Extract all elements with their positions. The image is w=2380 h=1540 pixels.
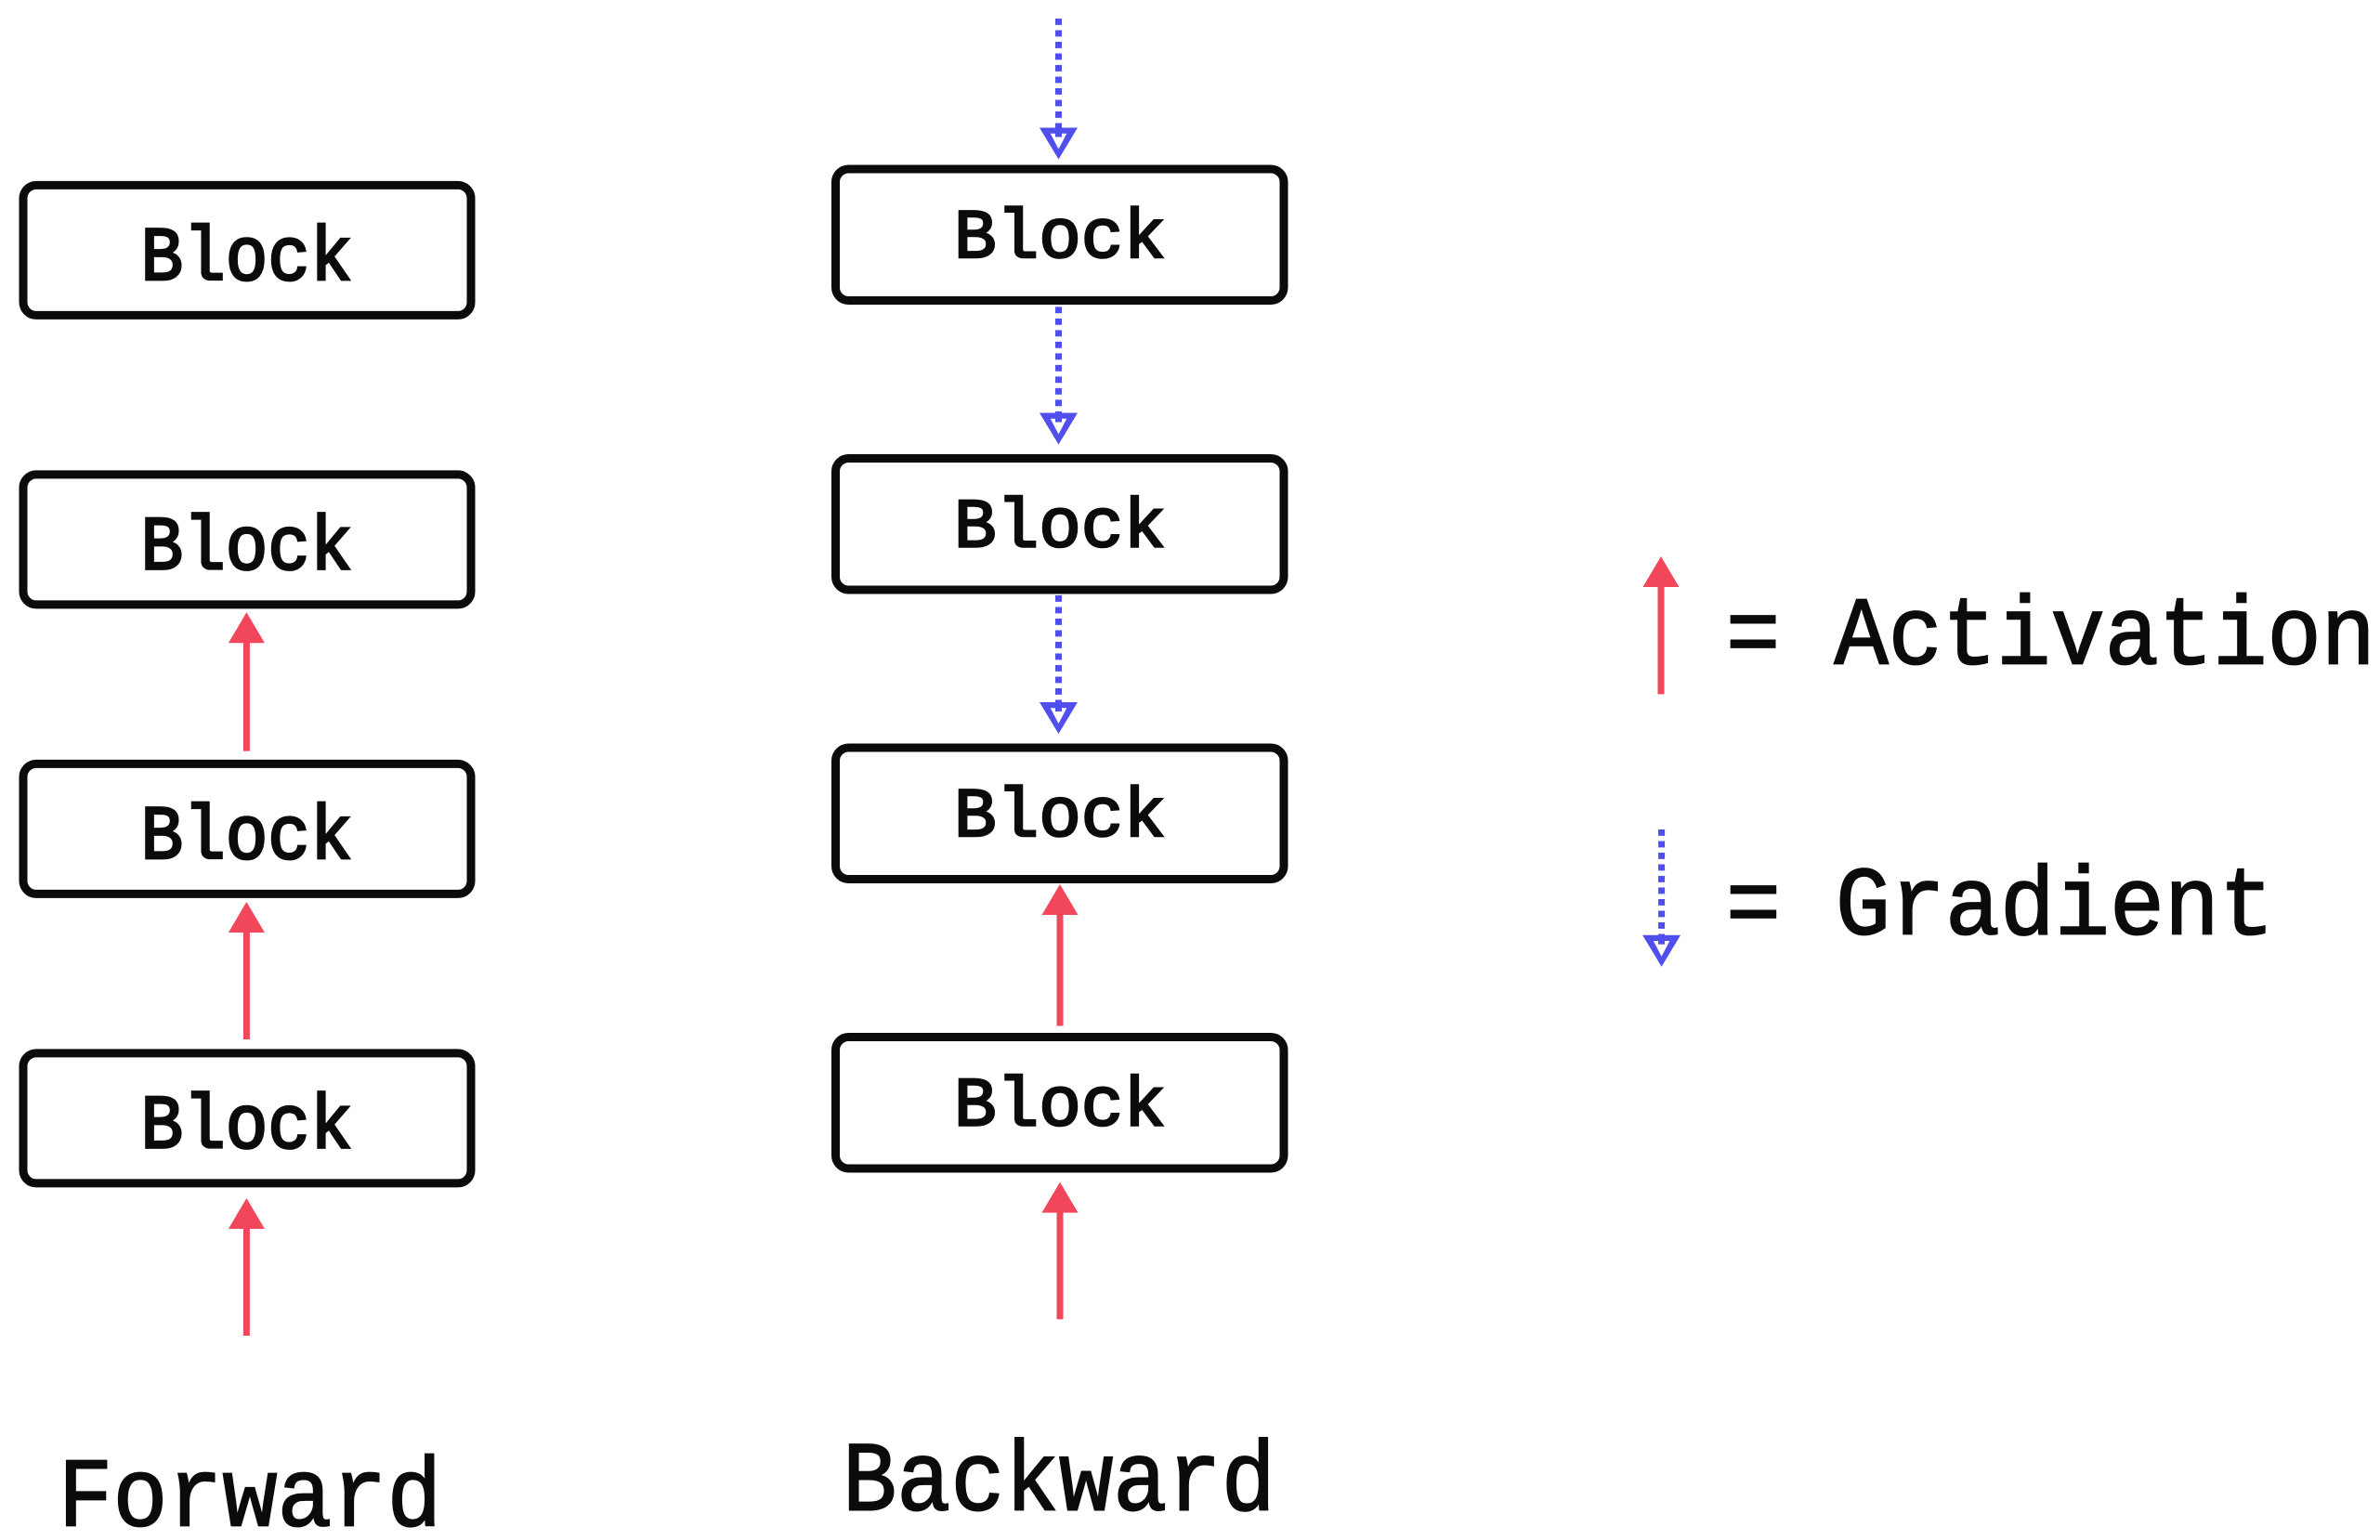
- arrow activation mid A5: [1042, 1182, 1079, 1320]
- block box forward 1: [23, 185, 471, 315]
- block box backward 2: [836, 459, 1285, 591]
- svg-text:= Activation: = Activation: [1726, 583, 2375, 694]
- block box backward 4: [836, 1038, 1285, 1169]
- legend gradient arrow: [1642, 829, 1680, 967]
- arrow activation mid A4: [1042, 884, 1079, 1026]
- svg-text:= Gradient: = Gradient: [1726, 854, 2274, 964]
- arrow gradient top B1: [1040, 19, 1078, 160]
- svg-text:Block: Block: [141, 794, 353, 881]
- block box forward 4: [23, 1053, 471, 1183]
- block box forward 2: [23, 475, 471, 605]
- svg-text:Block: Block: [141, 1084, 353, 1171]
- arrow gradient mid B3: [1040, 595, 1078, 734]
- svg-text:Block: Block: [954, 199, 1166, 279]
- svg-text:Block: Block: [141, 505, 353, 593]
- arrow activation left A2: [229, 902, 265, 1039]
- arrow gradient mid B2: [1040, 307, 1078, 444]
- arrow activation left A3: [229, 1198, 265, 1336]
- svg-text:Block: Block: [141, 215, 353, 303]
- svg-text:Block: Block: [954, 777, 1166, 857]
- legend activation arrow: [1643, 556, 1680, 694]
- svg-text:Block: Block: [954, 1067, 1166, 1147]
- block box backward 1: [836, 169, 1285, 301]
- block box forward 3: [23, 763, 471, 894]
- svg-text:Forward: Forward: [59, 1445, 442, 1540]
- block box backward 3: [836, 748, 1285, 880]
- arrow activation left A1: [229, 612, 265, 750]
- svg-text:Block: Block: [954, 489, 1166, 568]
- svg-text:Backward: Backward: [843, 1429, 1275, 1540]
